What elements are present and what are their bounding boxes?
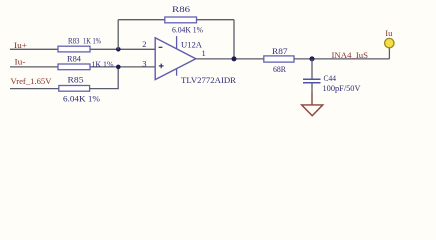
node junction (output/C44) xyxy=(310,56,315,61)
svg-text:TLV2772AIDR: TLV2772AIDR xyxy=(181,75,236,85)
resistor R83 xyxy=(58,46,90,52)
capacitor C44 xyxy=(303,79,321,83)
svg-text:R87: R87 xyxy=(272,46,288,56)
node junction (non-inverting input) xyxy=(116,65,121,70)
svg-text:INA4_IuS: INA4_IuS xyxy=(332,50,369,60)
plus input marker xyxy=(159,64,164,69)
wire xyxy=(388,48,390,59)
svg-text:6.04K 1%: 6.04K 1% xyxy=(172,25,203,35)
wire xyxy=(90,67,119,89)
svg-text:68R: 68R xyxy=(273,64,286,74)
svg-text:3: 3 xyxy=(142,58,146,68)
resistor R87 xyxy=(264,56,294,62)
svg-text:2: 2 xyxy=(142,39,146,49)
wire xyxy=(233,20,235,59)
svg-text:6.04K 1%: 6.04K 1% xyxy=(63,93,100,103)
svg-text:U12A: U12A xyxy=(181,40,203,50)
svg-text:1K 1%: 1K 1% xyxy=(92,59,114,69)
wire xyxy=(294,58,389,60)
port Iu (sheet connector) xyxy=(385,38,394,47)
wire xyxy=(90,48,155,50)
svg-text:R84: R84 xyxy=(67,53,82,63)
svg-text:Iu: Iu xyxy=(385,28,393,38)
svg-text:R86: R86 xyxy=(172,4,190,14)
wire xyxy=(90,66,155,68)
wire xyxy=(10,48,59,50)
pin 4 power stub xyxy=(176,69,178,76)
svg-text:Vref_1.65V: Vref_1.65V xyxy=(11,76,53,86)
svg-text:1: 1 xyxy=(201,48,205,58)
pin 8 power stub xyxy=(176,36,178,49)
svg-text:R85: R85 xyxy=(68,74,84,84)
wire xyxy=(118,19,165,21)
ground xyxy=(302,93,323,116)
svg-text:Iu+: Iu+ xyxy=(14,40,27,50)
wire xyxy=(117,20,119,50)
wire xyxy=(311,83,313,94)
resistor R86 xyxy=(165,17,197,23)
minus input marker xyxy=(159,46,163,48)
svg-text:C44: C44 xyxy=(324,73,337,83)
resistor R84 xyxy=(58,64,90,70)
resistor R85 xyxy=(59,86,90,92)
svg-text:R83: R83 xyxy=(68,35,80,45)
op-amp U12A xyxy=(155,38,196,80)
wire xyxy=(10,66,59,68)
wire xyxy=(196,58,264,60)
node junction (feedback/output) xyxy=(232,56,237,61)
svg-text:1K 1%: 1K 1% xyxy=(83,35,101,45)
wire xyxy=(10,88,59,90)
wire xyxy=(311,59,313,79)
wire xyxy=(196,19,234,21)
svg-text:100pF/50V: 100pF/50V xyxy=(323,83,362,93)
svg-text:Iu-: Iu- xyxy=(15,56,26,66)
node junction (inverting input) xyxy=(116,47,121,52)
